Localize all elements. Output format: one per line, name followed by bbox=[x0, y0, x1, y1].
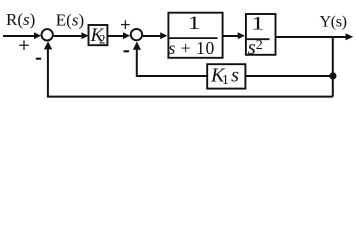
plus sign at S1 input bbox=[19, 44, 29, 46]
wire: inner feedback left segment from K1s to S2 bbox=[137, 47, 207, 76]
wire: K2 to summing junction S2 bbox=[107, 35, 124, 37]
summing junction S2 bbox=[131, 29, 142, 40]
wire: inner feedback right segment to K1s bbox=[245, 75, 332, 77]
summing junction S1 bbox=[42, 29, 53, 40]
minus sign at S1 feedback input bbox=[36, 58, 41, 60]
plus sign at S2 input bbox=[121, 24, 130, 26]
svg-text:R(s): R(s) bbox=[6, 10, 35, 29]
minus sign at S2 feedback input bbox=[124, 50, 129, 52]
svg-text:K2: K2 bbox=[90, 25, 106, 47]
wire: outer feedback from output node to S1 bbox=[48, 47, 333, 97]
svg-text:1: 1 bbox=[188, 12, 201, 33]
svg-text:s + 10: s + 10 bbox=[169, 38, 215, 58]
wire: S2 to block G1 bbox=[143, 35, 161, 37]
wire: output tap vertical line down bbox=[332, 36, 334, 97]
wire: G2 output to Y(s) bbox=[276, 36, 347, 38]
block K2 bbox=[89, 25, 108, 45]
svg-text:1: 1 bbox=[251, 12, 264, 33]
svg-text:Y(s): Y(s) bbox=[320, 12, 347, 30]
node junction dot on feedback tap bbox=[329, 72, 336, 79]
wire: G1 to block G2 bbox=[223, 35, 239, 37]
block G1: 1/(s+10) bbox=[168, 13, 222, 58]
wire: input R(s) to summing junction S1 bbox=[3, 35, 35, 37]
block K1s bbox=[207, 64, 245, 88]
block G2: 1/s^2 bbox=[246, 14, 276, 55]
wire: S1 to block K2 bbox=[54, 35, 83, 37]
svg-text:E(s): E(s) bbox=[56, 10, 84, 29]
